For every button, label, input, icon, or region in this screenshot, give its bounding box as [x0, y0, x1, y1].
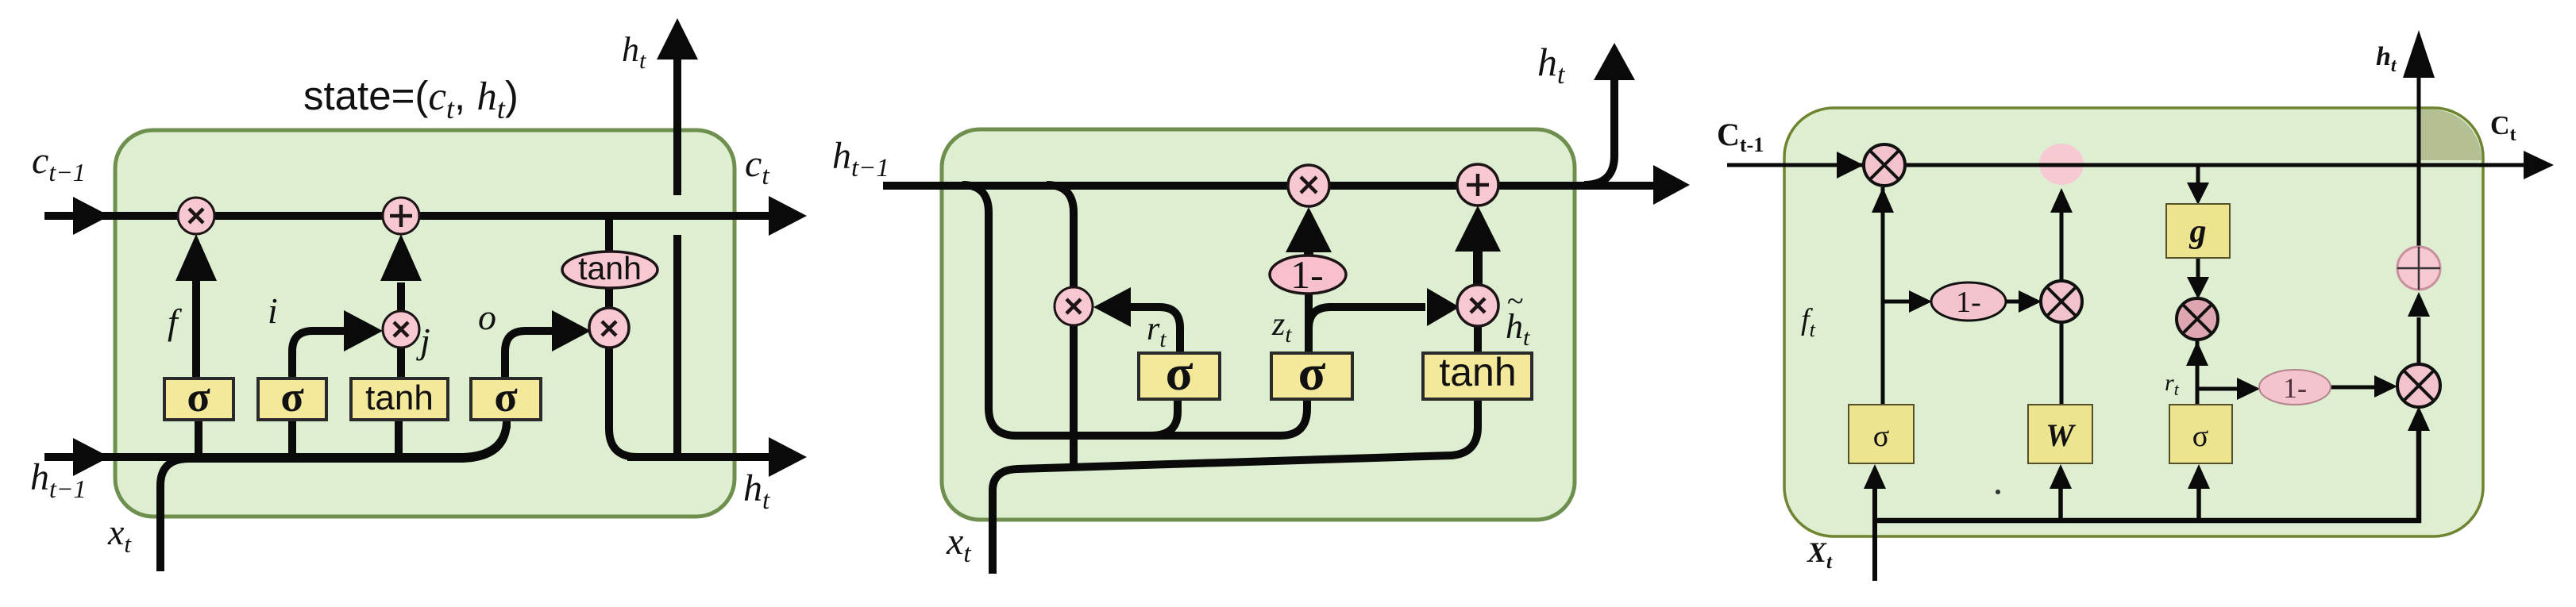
svg-text:σ: σ [1166, 344, 1194, 401]
svg-text:σ: σ [187, 373, 210, 421]
svg-text:ct: ct [745, 143, 769, 190]
svg-text:W: W [2046, 417, 2076, 453]
svg-text:ht: ht [1537, 40, 1566, 90]
svg-text:o: o [478, 297, 496, 337]
svg-text:tanh: tanh [365, 378, 434, 417]
svg-text:1-: 1- [1290, 252, 1324, 297]
svg-text:ht−1: ht−1 [832, 135, 889, 182]
svg-text:ht: ht [2376, 42, 2397, 76]
svg-text:tanh: tanh [1439, 350, 1516, 394]
svg-text:Xt: Xt [1807, 536, 1833, 573]
svg-text:σ: σ [2192, 420, 2208, 453]
svg-text:g: g [2189, 213, 2207, 250]
svg-text:state=(ct, ht): state=(ct, ht) [303, 73, 519, 125]
svg-text:xt: xt [946, 521, 971, 568]
svg-text:tanh: tanh [578, 250, 642, 286]
svg-text:1-: 1- [1956, 286, 1981, 319]
svg-text:Ct-1: Ct-1 [1717, 117, 1764, 156]
svg-text:i: i [268, 290, 278, 331]
svg-text:σ: σ [1298, 344, 1326, 401]
svg-text:σ: σ [1873, 420, 1889, 453]
svg-text:xt: xt [107, 512, 132, 558]
svg-text:ht: ht [743, 467, 770, 515]
svg-text:~: ~ [1507, 285, 1524, 318]
svg-text:Ct: Ct [2490, 111, 2516, 145]
svg-text:σ: σ [280, 373, 304, 421]
svg-text:σ: σ [494, 373, 518, 421]
svg-text:ct−1: ct−1 [32, 140, 86, 186]
svg-text:1-: 1- [2283, 372, 2307, 404]
svg-text:ht: ht [622, 30, 646, 74]
